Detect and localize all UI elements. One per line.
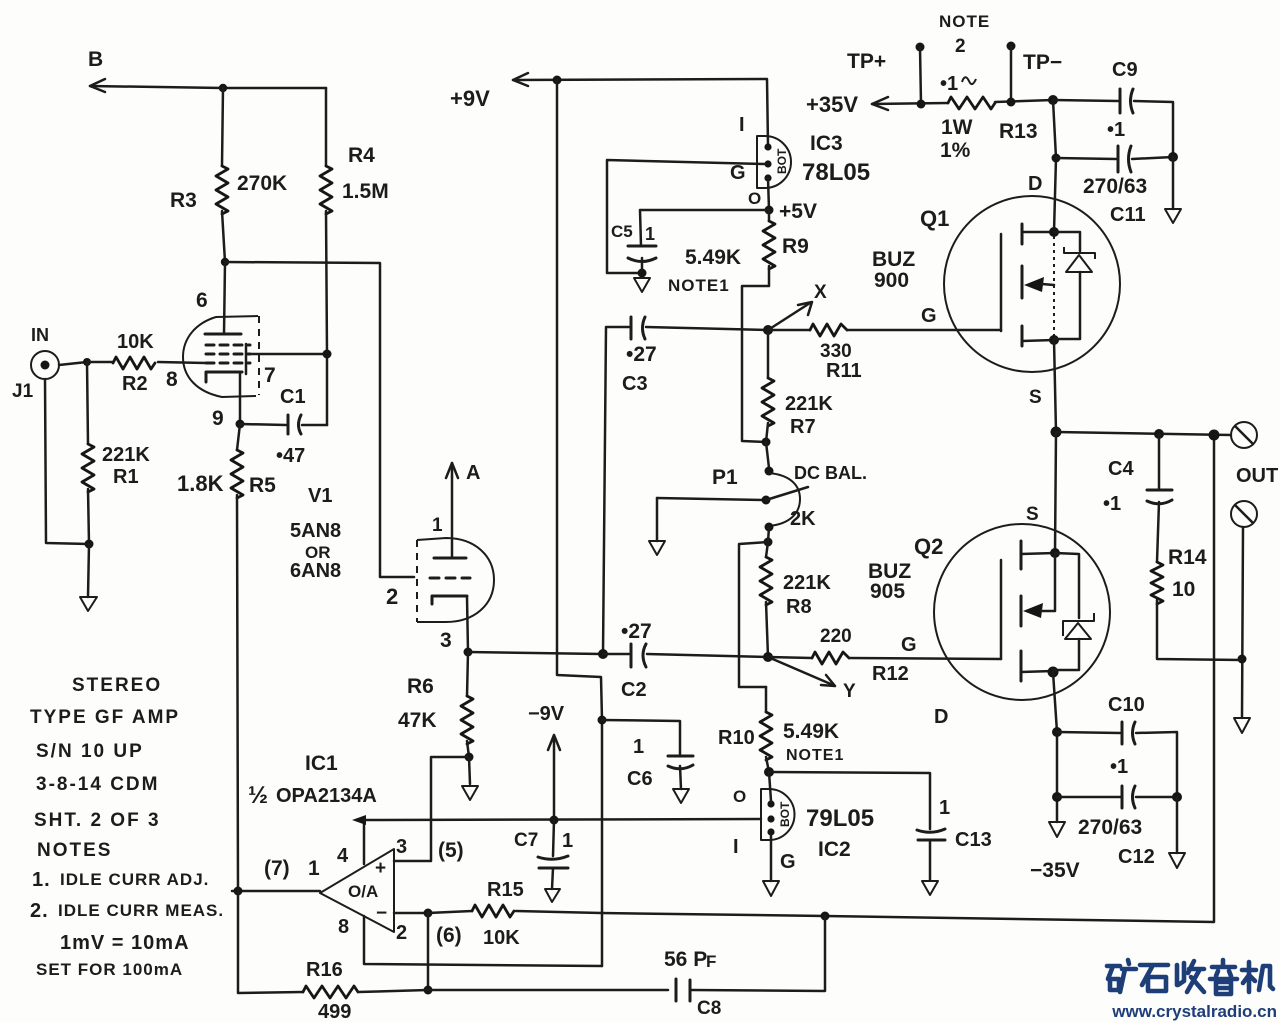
svg-text:C3: C3	[622, 373, 648, 395]
svg-text:330: 330	[820, 341, 852, 362]
tube V1 pentode envelope	[183, 316, 259, 397]
svg-text:IDLE CURR ADJ.: IDLE CURR ADJ.	[60, 870, 209, 889]
svg-text:Q1: Q1	[920, 206, 949, 231]
svg-text:IC3: IC3	[810, 132, 843, 155]
svg-text:G: G	[921, 305, 937, 327]
svg-text:221K: 221K	[102, 444, 150, 466]
svg-text:R15: R15	[487, 879, 524, 901]
wire OUT- to ground	[1242, 527, 1243, 718]
output rail	[1056, 432, 1231, 435]
svg-text:C5: C5	[611, 222, 633, 241]
svg-text:C12: C12	[1118, 846, 1155, 868]
triode plate pin 1 + node A arrow	[432, 462, 480, 558]
svg-text:IC1: IC1	[305, 752, 338, 775]
node R1/R2	[83, 358, 91, 366]
label NOTE 2	[939, 12, 990, 57]
svg-text:C13: C13	[955, 829, 992, 851]
svg-text:G: G	[780, 851, 796, 873]
wire op-amp output	[232, 890, 320, 893]
svg-text:270/63: 270/63	[1078, 816, 1142, 839]
resistor R4	[320, 88, 389, 425]
svg-text:R7: R7	[790, 416, 816, 438]
svg-text:1%: 1%	[940, 139, 971, 162]
svg-text:J1: J1	[12, 381, 34, 402]
svg-text:R6: R6	[407, 675, 434, 698]
svg-text:NOTES: NOTES	[37, 840, 112, 861]
svg-text:TP+: TP+	[847, 50, 886, 73]
svg-text:D: D	[934, 706, 948, 728]
svg-text:5AN8: 5AN8	[290, 520, 341, 542]
op-amp U1 IC1 triangle	[320, 849, 394, 932]
ground arrow OUT-	[1234, 718, 1250, 733]
wire IC3 O to +5V node	[768, 178, 769, 210]
node C12 tap	[1052, 792, 1062, 802]
resistor R16	[238, 891, 428, 1022]
svg-text:(6): (6)	[436, 924, 462, 947]
node C10 tap	[1052, 727, 1062, 737]
svg-text:1: 1	[633, 736, 644, 758]
resistor R13	[940, 73, 1053, 162]
svg-text:1: 1	[308, 857, 320, 880]
svg-text:C8: C8	[697, 998, 721, 1019]
svg-text:3-8-14 CDM: 3-8-14 CDM	[36, 774, 159, 795]
node cathode pin 9	[236, 420, 245, 429]
svg-text:F: F	[706, 952, 716, 971]
svg-text:−: −	[376, 903, 387, 924]
node C8 riser	[821, 912, 830, 921]
svg-text:R1: R1	[113, 466, 139, 488]
resistor R11	[768, 324, 1001, 382]
node -35V arrow	[1030, 822, 1080, 882]
svg-text:1mV = 10mA: 1mV = 10mA	[60, 932, 190, 954]
svg-text:NOTE1: NOTE1	[668, 276, 730, 295]
svg-text:TYPE GF AMP: TYPE GF AMP	[30, 707, 180, 728]
svg-text:P1: P1	[712, 466, 738, 489]
ground arrow below C5	[634, 278, 650, 292]
node below R10	[764, 767, 774, 777]
svg-text:C7: C7	[514, 830, 538, 851]
svg-text:1: 1	[939, 797, 950, 819]
svg-text:2: 2	[396, 922, 407, 944]
wire Q1 source to output node	[1054, 340, 1056, 432]
+9V rail arrow	[450, 73, 768, 146]
svg-text:905: 905	[870, 580, 905, 603]
svg-text:+: +	[375, 858, 386, 879]
transistor Q2 BUZ905	[868, 504, 1110, 728]
wire Q2 drain down	[1053, 672, 1057, 822]
svg-text:•27: •27	[621, 620, 652, 643]
node +35V/drain	[1048, 95, 1058, 105]
svg-text:OPA2134A: OPA2134A	[276, 785, 377, 807]
svg-text:C1: C1	[280, 386, 306, 408]
capacitor C8	[664, 916, 825, 1019]
svg-text:R14: R14	[1168, 546, 1207, 569]
svg-text:•47: •47	[276, 445, 305, 467]
wire junction at R3 top	[219, 84, 227, 92]
node P1 bottom	[764, 538, 773, 547]
svg-text:C9: C9	[1112, 59, 1138, 81]
pentode cathode	[206, 372, 242, 430]
resistor R8	[760, 542, 831, 657]
capacitor C3	[603, 317, 766, 654]
svg-text:7: 7	[264, 364, 276, 387]
wire output to Q2 source	[1055, 432, 1056, 553]
pentode plate pin 6	[196, 262, 241, 334]
resistor R12	[768, 626, 1001, 685]
svg-text:R2: R2	[122, 373, 148, 395]
svg-text:NOTE1: NOTE1	[786, 747, 844, 764]
resistor R7	[762, 330, 833, 442]
svg-text:1: 1	[562, 830, 573, 852]
node R7 bottom	[762, 438, 771, 447]
svg-text:6: 6	[196, 289, 208, 312]
node cathode junction	[464, 648, 473, 657]
svg-text:C11: C11	[1110, 204, 1146, 226]
label IC1	[248, 752, 377, 809]
svg-text:I: I	[733, 836, 739, 858]
svg-text:BUZ: BUZ	[872, 248, 915, 271]
svg-text:I: I	[739, 114, 745, 136]
svg-text:1.: 1.	[32, 869, 51, 891]
svg-text:C4: C4	[1108, 458, 1134, 480]
svg-text:+9V: +9V	[450, 86, 490, 111]
capacitor C11	[1056, 146, 1178, 226]
op-amp pin2 wire	[394, 912, 428, 915]
svg-text:Y: Y	[843, 681, 856, 702]
svg-text:½: ½	[248, 782, 268, 809]
svg-text:S: S	[1029, 387, 1042, 408]
triode plate	[434, 557, 466, 560]
capacitor C1	[240, 386, 327, 467]
svg-text:SET FOR 100mA: SET FOR 100mA	[36, 960, 183, 979]
node C3/R11/R7 junction	[763, 325, 773, 335]
capacitor C12	[1057, 786, 1182, 868]
node output	[234, 887, 243, 896]
resistor R1	[82, 362, 150, 544]
svg-text:10K: 10K	[117, 331, 154, 353]
node +9V	[553, 76, 562, 85]
svg-text:8: 8	[338, 916, 349, 938]
arrow below R6	[462, 757, 478, 800]
resistor R15	[428, 879, 601, 949]
node bottom rail	[424, 986, 433, 995]
wire J1 ground	[45, 379, 89, 544]
svg-text:2K: 2K	[790, 508, 816, 530]
svg-text:4: 4	[337, 845, 349, 867]
svg-text:1: 1	[432, 515, 443, 536]
svg-text:220: 220	[820, 626, 852, 647]
svg-text:R12: R12	[872, 663, 909, 685]
node below R6	[465, 753, 474, 762]
svg-text:+35V: +35V	[806, 92, 858, 117]
svg-text:(5): (5)	[438, 839, 464, 862]
capacitor C13	[769, 772, 992, 895]
op-amp pin4 lead to -9V rail	[352, 815, 366, 864]
-9V arrow	[528, 703, 565, 820]
regulator IC2 79L05	[733, 787, 874, 873]
svg-text:47K: 47K	[398, 709, 437, 732]
bottom rail to C8	[428, 989, 668, 992]
feedback rail to output	[601, 435, 1214, 922]
svg-text:O: O	[733, 787, 746, 806]
node ground	[85, 540, 94, 549]
svg-text:OUT: OUT	[1236, 465, 1278, 487]
capacitor C7	[514, 820, 573, 902]
wire drain rail	[1053, 100, 1056, 232]
pentode grids	[206, 344, 250, 374]
capacitor C5	[611, 210, 769, 273]
svg-text:3: 3	[440, 629, 452, 652]
svg-text:R9: R9	[782, 235, 809, 258]
label 5AN8 OR 6AN8	[290, 520, 341, 582]
svg-text:10: 10	[1172, 578, 1195, 601]
svg-text:R4: R4	[348, 144, 375, 167]
node C6 tap	[598, 716, 607, 725]
node C2/R12 junction	[763, 652, 773, 662]
node C5 ground	[638, 269, 647, 278]
triode grid pin 2	[386, 578, 470, 609]
svg-text:270/63: 270/63	[1083, 175, 1147, 198]
wire J1 to R2	[59, 362, 87, 365]
pin 7 wire to R4	[247, 354, 327, 387]
svg-text:Q2: Q2	[914, 534, 943, 559]
svg-text:R3: R3	[170, 189, 197, 212]
svg-text:1.8K: 1.8K	[177, 471, 224, 496]
triode cathode pin 3	[432, 596, 468, 652]
svg-text:•1: •1	[1110, 756, 1128, 778]
node pin2	[424, 909, 433, 918]
node C4 tap	[1154, 429, 1164, 439]
svg-text:R13: R13	[999, 120, 1038, 143]
svg-text:R16: R16	[306, 959, 343, 981]
+35V rail arrow	[806, 92, 948, 117]
svg-text:−35V: −35V	[1030, 859, 1080, 882]
ground arrow at P1 wiper	[649, 498, 665, 555]
wire pin2 riser	[427, 913, 430, 990]
svg-text:IC2: IC2	[818, 838, 851, 861]
svg-text:V1: V1	[308, 485, 332, 507]
svg-text:8: 8	[166, 368, 178, 391]
wire IC2 G to ground	[763, 835, 779, 896]
svg-text:IDLE CURR MEAS.: IDLE CURR MEAS.	[58, 901, 224, 920]
svg-text:56 P: 56 P	[664, 948, 707, 971]
svg-text:NOTE: NOTE	[939, 12, 990, 31]
svg-text:O/A: O/A	[348, 882, 378, 901]
connector J1	[12, 325, 59, 402]
svg-text:www.crystalradio.cn: www.crystalradio.cn	[1111, 1002, 1277, 1021]
capacitor C9	[1053, 59, 1173, 157]
capacitor C6	[602, 720, 693, 803]
svg-text:900: 900	[874, 269, 909, 292]
ground arrow C9/C11	[1165, 157, 1181, 223]
node below R3	[221, 258, 229, 266]
node B arrow	[88, 48, 326, 92]
resistor R2	[87, 331, 206, 395]
svg-text:79L05: 79L05	[806, 805, 874, 832]
svg-text:1: 1	[645, 224, 655, 244]
svg-text:IN: IN	[31, 325, 49, 345]
potentiometer P1	[657, 442, 867, 532]
svg-text:221K: 221K	[785, 393, 833, 415]
op-amp pin8 lead	[364, 916, 602, 966]
node pin7/R4	[323, 350, 332, 359]
node Y arrow	[768, 657, 856, 702]
ground arrow below R1	[80, 544, 97, 611]
svg-text:−9V: −9V	[528, 703, 565, 725]
svg-text:1.5M: 1.5M	[342, 180, 389, 203]
svg-text:5.49K: 5.49K	[783, 720, 839, 743]
svg-text:R11: R11	[826, 360, 862, 382]
svg-text:•27: •27	[626, 343, 657, 366]
-9V rail	[364, 819, 761, 820]
test point TP-	[1007, 42, 1063, 107]
terminal OUT-	[1231, 501, 1257, 527]
svg-text:A: A	[466, 462, 480, 484]
svg-text:499: 499	[318, 1001, 351, 1022]
wire +9V feed down to pin8	[557, 80, 602, 966]
svg-text:R8: R8	[786, 596, 812, 618]
svg-text:S: S	[1026, 504, 1039, 525]
wire IC2 O pin to R10 node	[769, 772, 771, 801]
svg-text:C10: C10	[1108, 694, 1145, 716]
watermark crystalradio logo	[1107, 960, 1273, 994]
node feedback tap	[1209, 430, 1220, 441]
svg-text:1W: 1W	[941, 116, 973, 139]
svg-text:BOT: BOT	[775, 148, 789, 174]
test point TP+	[847, 43, 926, 109]
svg-text:•1: •1	[940, 73, 958, 95]
resistor R9	[685, 210, 809, 442]
text block STEREO	[30, 675, 180, 861]
resistor R3	[170, 88, 287, 262]
svg-text:10K: 10K	[483, 927, 520, 949]
svg-text:6AN8: 6AN8	[290, 560, 341, 582]
terminal OUT+	[1231, 422, 1257, 448]
svg-text:270K: 270K	[237, 172, 287, 195]
node +5V	[765, 200, 817, 223]
svg-text:G: G	[730, 162, 746, 184]
svg-text:2.: 2.	[30, 900, 49, 922]
resistor R10	[718, 687, 844, 772]
svg-text:DC BAL.: DC BAL.	[794, 463, 867, 483]
node -9V/C7	[550, 816, 559, 825]
svg-text:9: 9	[212, 407, 224, 430]
tube V1 triode envelope	[417, 538, 494, 622]
svg-text:+5V: +5V	[779, 200, 817, 223]
wire cathode to C2	[468, 652, 602, 654]
svg-text:X: X	[814, 282, 827, 303]
svg-text:•1: •1	[1103, 493, 1121, 515]
capacitor C2	[598, 620, 766, 701]
transistor Q1 BUZ900	[872, 173, 1120, 408]
svg-text:3: 3	[396, 836, 407, 858]
svg-text:STEREO: STEREO	[72, 675, 162, 696]
svg-text:SHT. 2 OF 3: SHT. 2 OF 3	[34, 810, 161, 831]
svg-text:221K: 221K	[783, 572, 831, 594]
text block notes	[30, 869, 224, 979]
resistor R5	[177, 424, 276, 891]
resistor R6	[398, 652, 473, 757]
svg-text:C2: C2	[621, 679, 647, 701]
node R14 tie	[1238, 655, 1247, 664]
wire IC3 G to C5 ground	[607, 160, 765, 273]
resistor R14	[1151, 546, 1242, 660]
svg-text:•1: •1	[1107, 119, 1125, 141]
capacitor C10	[1057, 694, 1177, 797]
svg-text:BOT: BOT	[778, 801, 792, 827]
svg-text:O: O	[748, 189, 761, 208]
svg-text:B: B	[88, 48, 103, 71]
svg-text:2: 2	[955, 36, 966, 57]
svg-text:S/N 10 UP: S/N 10 UP	[36, 741, 144, 762]
svg-text:G: G	[901, 634, 917, 656]
wire R6 node to op-amp pin3	[394, 757, 469, 861]
svg-text:(7): (7)	[264, 857, 290, 880]
svg-text:2: 2	[386, 584, 398, 609]
svg-text:D: D	[1028, 173, 1042, 195]
op-amp labels	[264, 836, 464, 947]
node X arrow	[768, 282, 827, 330]
wire to triode grid	[225, 262, 414, 577]
wire P1 bottom jog to R10	[739, 527, 769, 687]
capacitor C4	[1103, 434, 1172, 562]
svg-text:C6: C6	[627, 768, 653, 790]
node C11 tap	[1052, 154, 1061, 163]
regulator IC3 78L05	[730, 114, 870, 208]
svg-text:R10: R10	[718, 727, 755, 749]
svg-text:78L05: 78L05	[802, 159, 870, 186]
svg-text:TP−: TP−	[1023, 51, 1062, 74]
svg-text:R5: R5	[249, 474, 276, 497]
svg-text:5.49K: 5.49K	[685, 246, 741, 269]
node output junction	[1051, 427, 1062, 438]
ground arrow C10/C12	[1169, 797, 1185, 868]
